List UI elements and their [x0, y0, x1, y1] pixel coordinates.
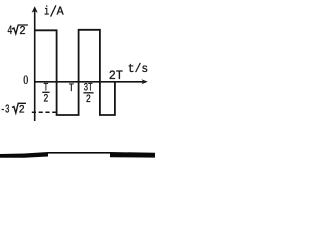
- svg-text:2: 2: [19, 104, 25, 116]
- svg-text:0: 0: [23, 73, 28, 87]
- svg-text:i: i: [44, 5, 49, 19]
- svg-text:4: 4: [7, 23, 12, 38]
- svg-text:A: A: [57, 5, 65, 19]
- svg-text:2: 2: [86, 94, 91, 106]
- svg-text:2: 2: [19, 24, 26, 38]
- svg-text:T: T: [69, 83, 75, 95]
- svg-text:-3: -3: [1, 102, 10, 116]
- svg-text:t/s: t/s: [128, 63, 148, 76]
- svg-text:2: 2: [43, 94, 48, 106]
- svg-text:2T: 2T: [109, 69, 124, 83]
